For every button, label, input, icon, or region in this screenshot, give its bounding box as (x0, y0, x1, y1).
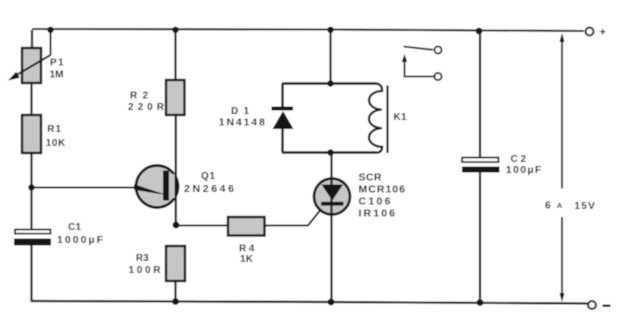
wire R2 to base junction through Q1 (175, 115, 177, 225)
wire top rail down to relay loop (329, 30, 331, 84)
svg-text:6: 6 (545, 201, 551, 212)
supply voltage range arrow (560, 33, 565, 302)
terminal positive (586, 26, 606, 38)
resistor R2 body (166, 80, 185, 115)
label R1 value (46, 124, 66, 149)
node junction P1 wiper / top rail (47, 27, 53, 33)
node junction relay loop top (327, 80, 333, 86)
thyristor SCR cathode bar (321, 202, 344, 206)
svg-text:220R: 220R (128, 102, 165, 113)
wire bottom negative rail (32, 301, 588, 304)
capacitor C2 bottom plate (462, 167, 500, 173)
svg-text:1M: 1M (50, 70, 64, 81)
svg-text:R3: R3 (136, 253, 149, 264)
label Q1 value (184, 171, 234, 195)
wire relay loop top horizontal (282, 82, 377, 84)
node junction top rail / relay branch (327, 27, 333, 33)
node junction relay loop bottom / SCR anode (327, 149, 333, 155)
relay coil K1 (369, 84, 388, 154)
wire P1 to R1 (30, 83, 32, 115)
wire top rail to R2 (174, 30, 176, 81)
svg-text:IR106: IR106 (359, 208, 396, 220)
wire left rail top segment (rail corner to P1) (31, 30, 33, 48)
label C1 value (57, 222, 104, 246)
wire R4 to SCR gate (265, 211, 321, 226)
label R2 value (128, 91, 165, 114)
wire R3 to bottom rail (174, 281, 176, 302)
wire junction to R4 (176, 225, 228, 227)
wire top rail down to C2 (479, 31, 481, 158)
wire loop left lower (D1 anode down) (281, 129, 283, 153)
wire loop left upper (to D1 cathode) (281, 84, 283, 108)
thyristor SCR circle (314, 179, 350, 215)
label D1 value (219, 106, 265, 129)
svg-text:SCR: SCR (359, 172, 382, 184)
wire R1 down to C1 (30, 153, 32, 230)
potentiometer P1 body (22, 48, 41, 83)
transistor Q1 emitter arrow (134, 184, 168, 195)
svg-text:15V: 15V (574, 201, 595, 212)
svg-text:K1: K1 (394, 112, 407, 123)
label C2 value (506, 154, 542, 176)
resistor R3 body (166, 246, 185, 281)
svg-text:Q1: Q1 (201, 171, 215, 182)
node junction SCR cathode / bottom rail (328, 299, 335, 306)
svg-text:+: + (600, 26, 606, 38)
diode D1 cathode bar (272, 107, 294, 111)
resistor R4 body (228, 217, 265, 236)
wire C1 to bottom rail (30, 246, 32, 303)
transistor Q1 circle 2N2646 (136, 166, 178, 208)
relay contact switch (402, 46, 442, 80)
svg-text:R1: R1 (47, 124, 61, 135)
resistor R1 body (22, 115, 41, 153)
node junction base1 / R3 / R4 (173, 222, 180, 229)
node junction left rail / emitter wire (28, 184, 34, 190)
capacitor C1 bottom plate (14, 239, 51, 246)
wire C2 to bottom rail (479, 173, 481, 304)
node junction top rail / C2 branch (476, 28, 483, 35)
node junction R3 / bottom rail (172, 298, 179, 305)
wire relay loop bottom horizontal (282, 151, 377, 153)
label R3 value (129, 253, 162, 276)
node junction top rail / R2 (172, 27, 178, 33)
label SCR types (359, 172, 406, 220)
label R4 value (239, 244, 255, 265)
capacitor C2 top plate (462, 158, 499, 163)
wire emitter horizontal from left rail to Q1 (32, 187, 139, 189)
node junction C2 / bottom rail (477, 299, 484, 306)
svg-text:10K: 10K (46, 138, 66, 149)
label supply voltage 6 to 15V (545, 201, 595, 213)
transistor Q1 base bar (163, 171, 176, 201)
thyristor SCR triangle (322, 185, 344, 201)
svg-text:A: A (557, 201, 563, 210)
diode D1 triangle (273, 111, 294, 129)
terminal negative (588, 301, 611, 309)
svg-text:C1: C1 (68, 222, 81, 233)
wire top positive rail (32, 29, 584, 31)
wire SCR anode-cathode vertical (330, 153, 332, 303)
svg-text:1000µF: 1000µF (57, 234, 104, 246)
capacitor C1 top plate (15, 230, 51, 234)
potentiometer P1 wiper arrow (8, 30, 51, 81)
label P1 value (50, 58, 64, 81)
svg-text:P1: P1 (50, 58, 64, 69)
svg-text:100µF: 100µF (506, 164, 542, 176)
svg-text:1K: 1K (240, 254, 254, 265)
svg-text:100R: 100R (129, 265, 162, 276)
